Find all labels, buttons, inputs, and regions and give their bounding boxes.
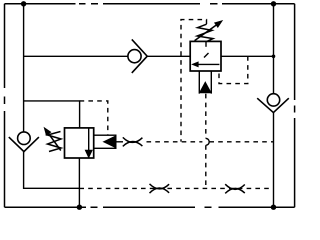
- wire: main pressure line (upper horizontal): [24, 55, 128, 57]
- check valve CV2 circle (top middle): [128, 50, 141, 63]
- wire: drain loop tick at outlet: [247, 56, 249, 60]
- wire: stub to orifice: [116, 141, 123, 143]
- enclosure boundary bottom edge (chain line): [5, 206, 295, 208]
- orifice O3 (bottom right): [225, 184, 245, 193]
- node: port junction top-left: [21, 1, 26, 6]
- wire: left trunk lower + bottom-left run: [24, 152, 80, 189]
- check valve CV2 seat: [132, 39, 147, 73]
- counterbalance valve RV2 body: [65, 128, 94, 158]
- RV2 internal arrow: [88, 128, 90, 151]
- wire: left trunk vertical upper: [23, 4, 25, 132]
- drain gallery line (dashed, bottom): [79, 187, 273, 189]
- wire hop over pilot line: [206, 138, 209, 145]
- node: port junction bottom-left: [77, 205, 82, 210]
- node: port junction bottom-right: [271, 205, 276, 210]
- RV1 drain loop (dashed, right): [219, 60, 248, 83]
- RV1 spring pin tick: [205, 41, 207, 46]
- RV2 spring: [48, 132, 62, 152]
- RV2 pilot line (dashed): [80, 101, 108, 135]
- orifice O1 (mid pilot line): [123, 137, 143, 146]
- wire: right trunk vertical lower: [273, 113, 275, 208]
- node: outlet tee junction: [272, 55, 276, 59]
- enclosure boundary top edge (chain line): [5, 3, 295, 5]
- RV1 drain line down (dashed, with hop): [205, 94, 207, 139]
- relief valve RV1 body: [190, 41, 221, 71]
- wire: feed to counterbalance valve RV2: [24, 101, 80, 128]
- wire: CV2 to relief valve RV1: [147, 55, 190, 57]
- RV1 tank stub triangle: [200, 82, 211, 93]
- enclosure boundary left edge (chain line): [4, 4, 6, 207]
- check valve CV3 seat: [257, 98, 289, 112]
- orifice O2 (bottom left): [150, 184, 170, 193]
- RV1 spring: [197, 24, 213, 41]
- check valve CV1 seat: [9, 137, 39, 152]
- check valve CV3 circle (right): [267, 94, 279, 106]
- node: port junction top-right: [271, 1, 276, 6]
- wire: RV1 outlet to right trunk: [221, 55, 274, 57]
- RV2 drain stub triangle: [104, 136, 116, 147]
- RV1 tank stub: [199, 71, 211, 94]
- check valve CV1 circle (left): [18, 132, 31, 145]
- enclosure boundary right edge (chain line): [294, 4, 296, 207]
- RV1 spring adjustment arrow: [195, 23, 219, 40]
- wire: right trunk vertical upper: [273, 4, 275, 94]
- RV2 drain stub: [94, 135, 116, 148]
- RV1 pilot line (dashed, to spring): [181, 20, 207, 142]
- wire: RV2 outlet to bottom: [78, 158, 80, 207]
- RV1 internal diagonal tick: [204, 53, 209, 58]
- RV2 spring adjustment arrow: [47, 131, 61, 151]
- pilot gallery line (dashed, mid): [147, 141, 274, 143]
- RV1 internal arrow: [198, 63, 220, 65]
